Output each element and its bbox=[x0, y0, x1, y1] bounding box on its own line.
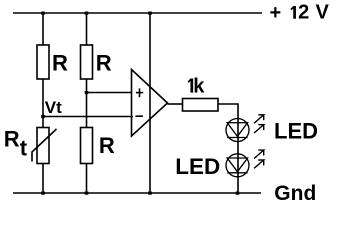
wire node Vt to inverting input bbox=[43, 116, 133, 118]
thermistor Rt bbox=[32, 128, 57, 164]
LED D1 light arrows bbox=[254, 115, 264, 133]
wire col1 lower bbox=[42, 164, 44, 194]
junction dot bottom col1 bbox=[41, 192, 45, 195]
label Rt bbox=[4, 126, 28, 160]
svg-text:R: R bbox=[99, 133, 115, 158]
wire 1k to LEDs to ground bbox=[218, 104, 238, 193]
LED D2 light arrows bbox=[254, 150, 264, 168]
svg-text:R: R bbox=[52, 51, 68, 76]
+12V supply rail bbox=[13, 12, 262, 14]
junction dot top col1 bbox=[41, 12, 45, 15]
op-amp U1 bbox=[132, 70, 168, 137]
junction dot bottom supply bbox=[148, 192, 152, 195]
resistor 1k bbox=[183, 99, 219, 112]
svg-text:LED: LED bbox=[274, 118, 318, 143]
wire col2 upper bbox=[86, 13, 88, 45]
wire non-inverting input bbox=[87, 92, 133, 94]
wire col1 middle bbox=[42, 79, 44, 128]
LED D2 bbox=[226, 154, 249, 177]
ground rail bbox=[13, 192, 261, 194]
resistor R2 bbox=[81, 45, 93, 79]
junction dot divider tap bbox=[85, 91, 89, 94]
svg-text:+: + bbox=[270, 2, 282, 24]
wire op-amp output bbox=[168, 103, 184, 105]
label 1k bbox=[188, 76, 205, 98]
resistor R1 bbox=[37, 45, 49, 79]
wire col2 middle bbox=[86, 79, 88, 128]
svg-text:Gnd: Gnd bbox=[274, 182, 316, 205]
svg-text:R: R bbox=[96, 51, 112, 76]
junction dot top supply bbox=[148, 12, 152, 15]
junction dot node Vt bbox=[41, 115, 45, 118]
wire col1 upper bbox=[42, 13, 44, 45]
svg-text:Vt: Vt bbox=[45, 98, 62, 117]
junction dot top col2 bbox=[85, 12, 89, 15]
svg-text:k: k bbox=[193, 76, 205, 98]
resistor R3 bbox=[81, 128, 93, 164]
svg-text:V: V bbox=[316, 2, 330, 24]
op-amp supply wire bbox=[149, 13, 151, 193]
label +12V rail bbox=[270, 2, 330, 24]
svg-text:2: 2 bbox=[298, 2, 309, 24]
svg-text:R: R bbox=[4, 126, 20, 151]
svg-text:t: t bbox=[20, 136, 28, 161]
junction dot bottom LED column bbox=[236, 192, 240, 195]
junction dot bottom col2 bbox=[85, 192, 89, 195]
svg-text:LED: LED bbox=[175, 154, 220, 179]
LED D1 bbox=[226, 119, 249, 142]
wire col2 lower bbox=[86, 164, 88, 194]
